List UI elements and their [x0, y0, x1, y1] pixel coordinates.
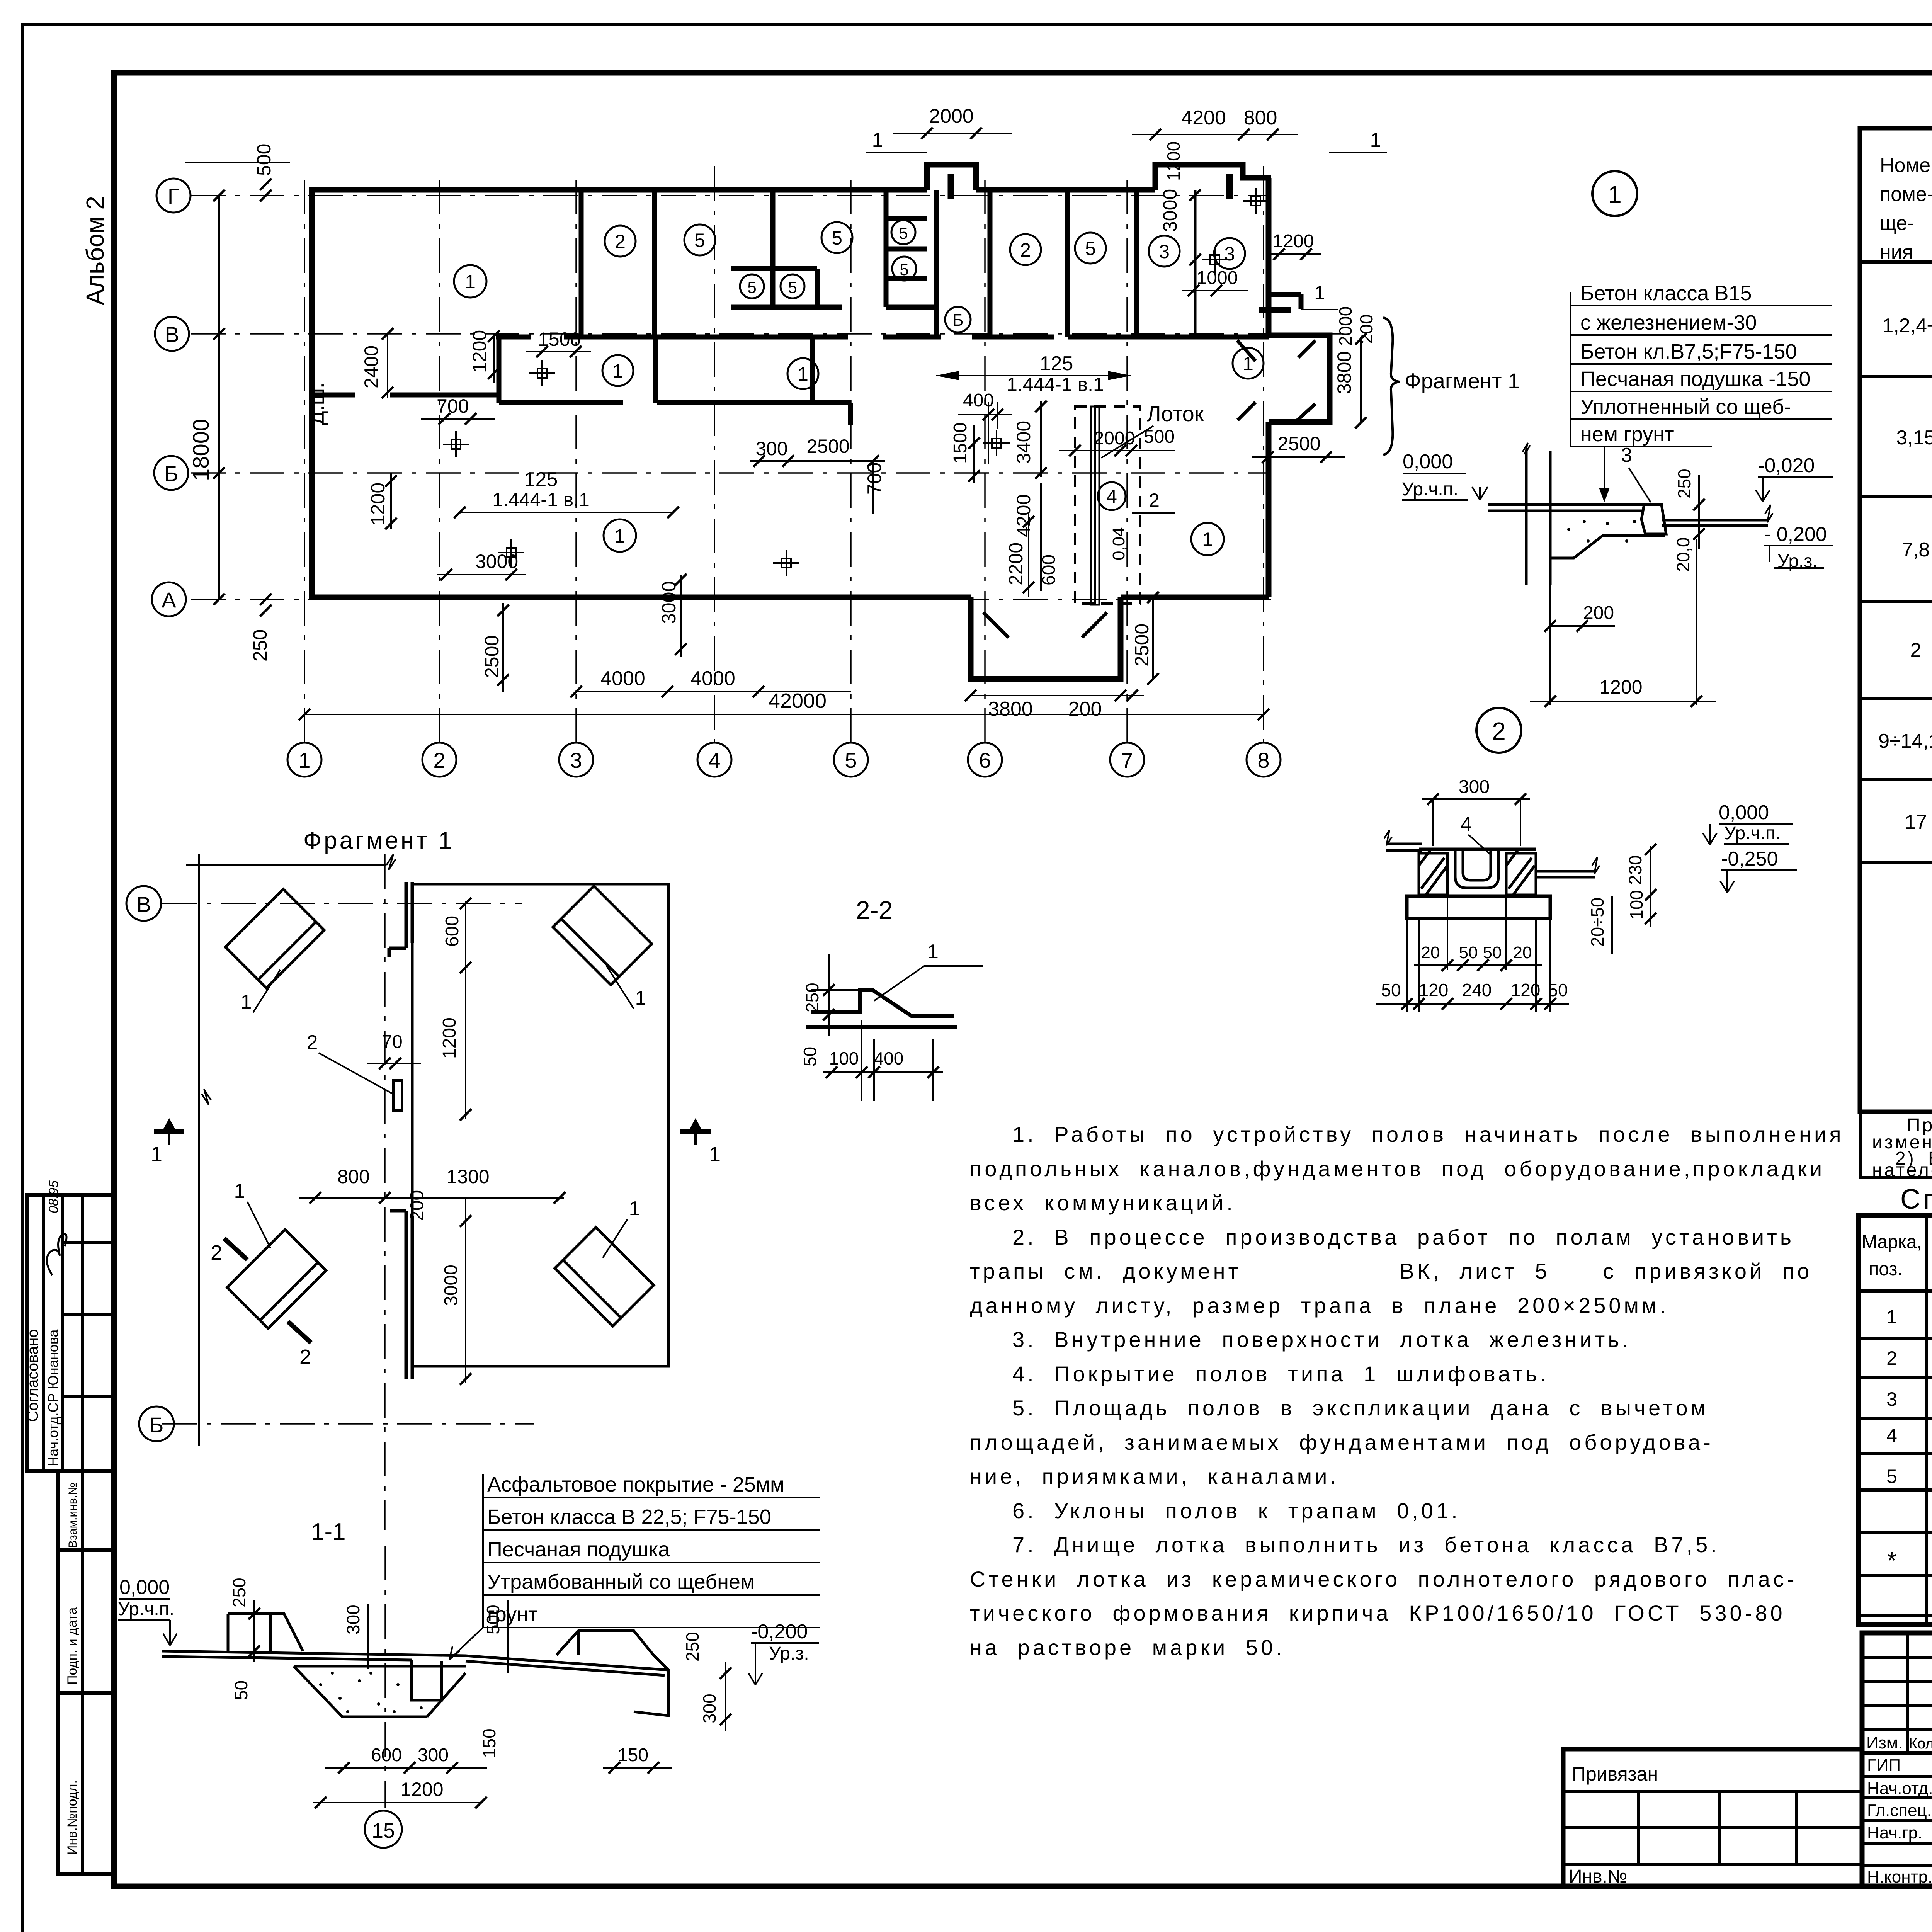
svg-text:нателе - деталь плинтуса: нателе - деталь плинтуса — [1872, 1160, 1932, 1180]
svg-text:Лоток: Лоток — [1147, 401, 1204, 426]
svg-text:300: 300 — [699, 1694, 719, 1723]
svg-text:20: 20 — [1421, 943, 1440, 962]
svg-text:Нач.отд.: Нач.отд. — [1867, 1779, 1932, 1798]
svg-text:5: 5 — [1085, 238, 1096, 259]
svg-text:700: 700 — [437, 395, 469, 417]
fragment embed item 2 — [393, 1080, 402, 1111]
svg-text:600: 600 — [442, 916, 463, 947]
svg-text:2: 2 — [1492, 717, 1506, 745]
svg-text:Бетон класса В 22,5; F75-150: Бетон класса В 22,5; F75-150 — [487, 1505, 771, 1529]
svg-text:3800: 3800 — [988, 698, 1033, 720]
dim 18000 left — [185, 162, 290, 599]
ekspl header text — [1880, 153, 1932, 264]
exterior walls — [309, 165, 1330, 679]
node 1 layers text — [1580, 282, 1810, 446]
svg-text:Уплотненный со щеб-: Уплотненный со щеб- — [1580, 395, 1791, 418]
svg-text:1: 1 — [1314, 282, 1325, 304]
dim 3800 200 dock — [971, 695, 1144, 696]
svg-text:данному листу, размер трапа: данному листу, размер трапа в плане 200×… — [970, 1293, 1669, 1318]
svg-text:2500: 2500 — [481, 635, 503, 678]
svg-text:грунт: грунт — [487, 1603, 538, 1626]
svg-text:1200: 1200 — [1599, 676, 1642, 698]
general notes — [970, 1122, 1844, 1660]
stamp signature — [47, 1234, 66, 1275]
svg-text:150: 150 — [479, 1728, 499, 1758]
section marks 2-2 fragment — [224, 1238, 311, 1343]
svg-text:Подп. и дата: Подп. и дата — [65, 1607, 80, 1685]
svg-text:Ур.ч.п.: Ур.ч.п. — [118, 1599, 174, 1619]
svg-text:Б: Б — [164, 461, 179, 486]
svg-text:0,04: 0,04 — [1109, 527, 1128, 560]
asphalt text block — [487, 1473, 784, 1626]
node 2 bubble — [1476, 708, 1521, 753]
svg-text:1500: 1500 — [538, 328, 581, 350]
ekspl row 5 — [1878, 709, 1932, 776]
svg-text:4200: 4200 — [1013, 494, 1034, 537]
svg-text:3: 3 — [1159, 241, 1170, 262]
node 15 bubble — [365, 1811, 402, 1848]
svg-text:17: 17 — [1905, 811, 1927, 833]
svg-text:Ур.ч.п.: Ур.ч.п. — [1724, 823, 1781, 844]
svg-text:2500: 2500 — [1277, 433, 1320, 454]
svg-text:2500: 2500 — [1131, 624, 1153, 667]
svg-text:3800: 3800 — [1333, 351, 1355, 394]
svg-text:1: 1 — [872, 129, 883, 151]
svg-text:2: 2 — [299, 1345, 311, 1369]
svg-text:ще-: ще- — [1880, 212, 1914, 235]
svg-text:5: 5 — [1886, 1466, 1897, 1487]
svg-text:2400: 2400 — [361, 345, 382, 388]
dock diagonals — [983, 340, 1315, 638]
section 1-1 floor — [162, 1614, 668, 1717]
svg-text:Спецификация металлических эле: Спецификация металлических элементов пол… — [1900, 1184, 1932, 1215]
svg-text:50: 50 — [231, 1680, 251, 1700]
svg-text:Бетон класса В15: Бетон класса В15 — [1580, 282, 1752, 305]
svg-text:Изм.: Изм. — [1866, 1733, 1903, 1752]
ekspl table grid — [1860, 128, 1932, 1112]
svg-text:3400: 3400 — [1013, 421, 1034, 464]
svg-text:2200: 2200 — [1005, 543, 1027, 585]
dim 42000 — [304, 714, 1264, 715]
svg-text:1: 1 — [709, 1143, 721, 1166]
svg-text:0,000: 0,000 — [1403, 451, 1453, 473]
svg-text:1200: 1200 — [1163, 141, 1184, 181]
svg-text:тического формования кирпича: тического формования кирпича КР100/1650/… — [970, 1601, 1786, 1625]
svg-text:2: 2 — [1886, 1347, 1897, 1369]
svg-text:Марка,: Марка, — [1862, 1232, 1922, 1252]
svg-text:08.95: 08.95 — [46, 1180, 61, 1213]
svg-text:Песчаная подушка: Песчаная подушка — [487, 1538, 670, 1561]
svg-text:Инв.№: Инв.№ — [1569, 1866, 1627, 1887]
grid bubbles left — [152, 179, 190, 616]
svg-text:1: 1 — [151, 1143, 162, 1166]
svg-text:1,2,4÷6: 1,2,4÷6 — [1882, 315, 1932, 337]
svg-text:Асфальтовое покрытие - 25мм: Асфальтовое покрытие - 25мм — [487, 1473, 784, 1496]
node 1 bubble — [1592, 171, 1637, 216]
svg-text:поме-: поме- — [1880, 183, 1932, 206]
svg-text:Номер: Номер — [1880, 154, 1932, 177]
svg-text:50: 50 — [1381, 980, 1401, 1000]
svg-text:7. Днище лотка выполнить из: 7. Днище лотка выполнить из бетона класс… — [1012, 1532, 1720, 1557]
svg-text:1: 1 — [1243, 353, 1253, 374]
interior walls — [312, 190, 1301, 425]
svg-text:1: 1 — [1370, 129, 1381, 151]
svg-text:3: 3 — [1886, 1388, 1897, 1410]
svg-text:150: 150 — [617, 1745, 648, 1765]
svg-text:42000: 42000 — [769, 689, 827, 713]
entry door leaf right — [1259, 307, 1291, 313]
svg-text:2. В процессе производства: 2. В процессе производства работ по пола… — [1012, 1225, 1794, 1249]
node 2 dims bottom — [1421, 943, 1532, 962]
column markers — [443, 188, 1269, 576]
svg-text:Б: Б — [952, 311, 964, 330]
svg-text:70: 70 — [382, 1032, 402, 1052]
svg-text:Фрагмент 1: Фрагмент 1 — [303, 827, 454, 854]
plan column axes — [191, 166, 1341, 742]
svg-text:1200: 1200 — [469, 330, 490, 373]
svg-text:Д.ш.: Д.ш. — [305, 383, 328, 425]
svg-text:4000: 4000 — [690, 667, 735, 690]
svg-text:1: 1 — [1202, 529, 1213, 550]
grid bubbles bottom — [287, 743, 1281, 777]
svg-text:Н.контр.: Н.контр. — [1867, 1867, 1932, 1886]
svg-text:2: 2 — [1020, 239, 1031, 261]
svg-text:трапы см. документ В: трапы см. документ ВК, лист 5 с привязко… — [970, 1259, 1812, 1283]
svg-text:1: 1 — [927, 940, 939, 963]
svg-text:3000: 3000 — [658, 581, 680, 624]
svg-text:1.444-1 в.1: 1.444-1 в.1 — [1007, 374, 1104, 395]
svg-text:250: 250 — [682, 1632, 702, 1662]
svg-text:1: 1 — [612, 360, 623, 382]
svg-text:100: 100 — [829, 1048, 859, 1068]
svg-text:Г: Г — [168, 184, 179, 208]
svg-text:240: 240 — [1462, 980, 1492, 1000]
svg-text:8: 8 — [1257, 748, 1269, 772]
svg-text:200: 200 — [407, 1190, 427, 1221]
svg-text:на растворе марки 50.: на растворе марки 50. — [970, 1635, 1285, 1660]
svg-text:5: 5 — [694, 230, 705, 251]
svg-text:ния: ния — [1880, 241, 1913, 264]
svg-text:2: 2 — [211, 1241, 222, 1264]
svg-text:250: 250 — [229, 1578, 249, 1607]
svg-text:800: 800 — [1244, 107, 1277, 129]
svg-text:площадей, занимаемых фундамен: площадей, занимаемых фундаментами под об… — [970, 1430, 1714, 1454]
svg-text:600: 600 — [371, 1745, 402, 1765]
svg-text:1200: 1200 — [400, 1779, 443, 1800]
notes box — [1861, 1112, 1932, 1180]
svg-text:Гл.спец.: Гл.спец. — [1867, 1801, 1932, 1820]
svg-text:Нач.гр.: Нач.гр. — [1867, 1823, 1922, 1842]
svg-text:2000: 2000 — [1335, 306, 1355, 346]
svg-text:15: 15 — [372, 1819, 395, 1842]
svg-text:1: 1 — [629, 1197, 640, 1220]
svg-text:1: 1 — [635, 987, 646, 1009]
svg-text:2: 2 — [1149, 490, 1160, 511]
spec table grid — [1859, 1215, 1932, 1625]
svg-text:3000: 3000 — [441, 1265, 461, 1306]
svg-text:5: 5 — [788, 278, 797, 296]
svg-text:0,000: 0,000 — [1719, 801, 1769, 824]
fragment channel upper — [389, 882, 412, 1379]
svg-text:4000: 4000 — [600, 667, 645, 690]
svg-text:50: 50 — [1548, 980, 1568, 1000]
svg-text:Согласовано: Согласовано — [24, 1329, 41, 1422]
svg-text:5: 5 — [899, 224, 908, 242]
svg-text:Взам.инв.№: Взам.инв.№ — [66, 1483, 79, 1548]
svg-text:3: 3 — [1224, 243, 1235, 265]
svg-text:с железнением-30: с железнением-30 — [1580, 311, 1757, 334]
svg-text:ние, приямками, каналами.: ние, приямками, каналами. — [970, 1464, 1339, 1488]
svg-text:125: 125 — [524, 468, 558, 491]
spec rows — [1886, 1306, 1932, 1610]
svg-text:50: 50 — [800, 1047, 820, 1066]
svg-text:50: 50 — [1483, 943, 1502, 962]
svg-text:В: В — [165, 322, 179, 347]
title block frame — [1862, 1633, 1932, 1886]
svg-text:400: 400 — [963, 390, 994, 411]
svg-text:Песчаная подушка -150: Песчаная подушка -150 — [1580, 367, 1810, 391]
lotok channel — [1091, 406, 1099, 605]
svg-text:2: 2 — [1910, 639, 1922, 662]
dim 4000 4000 — [576, 691, 851, 692]
svg-text:-0,020: -0,020 — [1758, 454, 1815, 477]
left stamp column — [27, 1195, 116, 1874]
svg-text:3,15: 3,15 — [1896, 427, 1932, 449]
svg-text:4: 4 — [1886, 1425, 1897, 1446]
fragment axes — [162, 854, 534, 1530]
node 2 drawing — [1384, 830, 1600, 918]
svg-text:5: 5 — [832, 227, 842, 249]
svg-text:0,000: 0,000 — [119, 1576, 170, 1599]
fragment plate labels — [234, 987, 646, 1220]
svg-text:Бетон кл.В7,5;F75-150: Бетон кл.В7,5;F75-150 — [1580, 340, 1797, 363]
svg-text:Стенки лотка из керамическо: Стенки лотка из керамического полнотелог… — [970, 1567, 1798, 1591]
svg-text:5. Площадь полов в эксплика: 5. Площадь полов в экспликации дана с вы… — [1012, 1396, 1709, 1420]
svg-text:18000: 18000 — [189, 419, 214, 481]
fragment plates — [225, 886, 654, 1328]
svg-text:100: 100 — [1626, 890, 1646, 920]
svg-text:300: 300 — [755, 438, 787, 459]
fragment axis bubbles — [126, 886, 174, 1441]
svg-text:20: 20 — [1513, 943, 1532, 962]
svg-text:*: * — [1887, 1548, 1896, 1574]
svg-text:всех коммуникаций.: всех коммуникаций. — [970, 1190, 1236, 1215]
svg-text:3: 3 — [1621, 444, 1632, 466]
svg-text:6: 6 — [979, 748, 991, 772]
svg-text:Ур.з.: Ур.з. — [769, 1643, 809, 1664]
svg-text:А: А — [162, 588, 176, 612]
svg-text:200: 200 — [1068, 698, 1102, 720]
svg-text:4: 4 — [1106, 486, 1117, 507]
svg-text:Нач.отд.СР Юнанова: Нач.отд.СР Юнанова — [45, 1329, 61, 1466]
svg-text:1. Работы по устройству пол: 1. Работы по устройству полов начинать п… — [1012, 1122, 1844, 1146]
svg-text:500: 500 — [253, 144, 275, 176]
svg-text:-0,250: -0,250 — [1721, 848, 1778, 870]
svg-text:Б: Б — [150, 1413, 164, 1437]
svg-text:1: 1 — [798, 363, 808, 385]
svg-text:1.444-1 в.1: 1.444-1 в.1 — [492, 489, 590, 510]
svg-text:Утрамбованный со щебнем: Утрамбованный со щебнем — [487, 1570, 755, 1594]
svg-text:2000: 2000 — [929, 105, 974, 128]
svg-text:1000: 1000 — [1197, 268, 1238, 288]
svg-text:300: 300 — [418, 1745, 449, 1765]
svg-text:7: 7 — [1121, 748, 1133, 772]
svg-text:250: 250 — [249, 629, 271, 662]
ekspl row 1 — [1882, 277, 1932, 368]
privyazan box — [1563, 1749, 1862, 1886]
svg-text:125: 125 — [1040, 352, 1073, 375]
svg-text:300: 300 — [1459, 777, 1490, 797]
svg-text:2: 2 — [615, 231, 626, 252]
ekspl row 6 — [1905, 794, 1932, 851]
svg-text:В: В — [136, 892, 151, 917]
svg-text:1-1: 1-1 — [311, 1519, 346, 1545]
section marks 1-1 fragment — [154, 1129, 711, 1134]
svg-text:2-2: 2-2 — [856, 896, 893, 924]
fragment wall lines — [186, 854, 396, 1446]
svg-text:20,0: 20,0 — [1673, 537, 1693, 572]
svg-text:2500: 2500 — [806, 435, 849, 457]
svg-text:1200: 1200 — [367, 483, 389, 526]
ekspl row 3 — [1902, 507, 1932, 600]
svg-text:ГИП: ГИП — [1867, 1756, 1901, 1775]
svg-text:1: 1 — [465, 271, 476, 293]
svg-text:Фрагмент 1: Фрагмент 1 — [1405, 369, 1520, 393]
svg-text:2000: 2000 — [1094, 428, 1135, 449]
svg-text:подпольных каналов,фундаменто: подпольных каналов,фундаментов под обору… — [970, 1156, 1825, 1181]
svg-text:250: 250 — [802, 983, 822, 1012]
svg-text:Привязан: Привязан — [1572, 1763, 1658, 1785]
svg-text:3. Внутренние поверхности ло: 3. Внутренние поверхности лотка железнит… — [1012, 1327, 1631, 1352]
svg-text:1200: 1200 — [439, 1017, 460, 1059]
svg-text:1: 1 — [1886, 1306, 1897, 1328]
fragment slab rect — [412, 884, 668, 1366]
title block texts — [1866, 1733, 1932, 1886]
svg-text:-0,200: -0,200 — [751, 1621, 808, 1643]
svg-text:4200: 4200 — [1181, 107, 1226, 129]
node 1 drawing — [1488, 443, 1773, 585]
ekspl row 2 — [1896, 409, 1932, 487]
svg-text:5: 5 — [747, 278, 756, 296]
svg-text:9÷14,16: 9÷14,16 — [1878, 730, 1932, 752]
svg-text:5: 5 — [900, 260, 908, 279]
svg-text:230: 230 — [1625, 855, 1645, 885]
svg-text:400: 400 — [874, 1048, 904, 1068]
svg-text:1: 1 — [241, 991, 252, 1013]
svg-text:1: 1 — [234, 1180, 245, 1202]
svg-text:300: 300 — [343, 1605, 363, 1634]
svg-text:1: 1 — [298, 748, 310, 772]
svg-text:1: 1 — [614, 525, 625, 547]
svg-text:Альбом 2: Альбом 2 — [81, 196, 109, 305]
svg-text:поз.: поз. — [1869, 1259, 1903, 1279]
svg-text:- 0,200: - 0,200 — [1764, 523, 1827, 546]
svg-text:1: 1 — [1608, 180, 1622, 208]
svg-text:2: 2 — [307, 1031, 318, 1054]
svg-text:250: 250 — [1674, 469, 1694, 498]
svg-text:700: 700 — [864, 463, 885, 495]
svg-text:2: 2 — [433, 748, 445, 772]
svg-text:120: 120 — [1419, 980, 1449, 1000]
svg-text:4. Покрытие полов типа 1 ш: 4. Покрытие полов типа 1 шлифовать. — [1012, 1362, 1549, 1386]
svg-text:1200: 1200 — [1273, 231, 1314, 252]
lotok pit dashed — [1075, 406, 1140, 604]
svg-text:800: 800 — [337, 1166, 369, 1187]
room labels — [454, 220, 1264, 555]
svg-text:1500: 1500 — [950, 422, 971, 464]
svg-text:6. Уклоны полов к трапам 0: 6. Уклоны полов к трапам 0,01. — [1012, 1498, 1461, 1523]
svg-text:4: 4 — [1461, 813, 1472, 835]
svg-text:Инв.№подл.: Инв.№подл. — [65, 1780, 80, 1855]
section 1-1 axis — [384, 1546, 386, 1808]
spec header — [1862, 1232, 1932, 1279]
door leaves top — [948, 174, 954, 199]
svg-text:5: 5 — [845, 748, 857, 772]
svg-text:1300: 1300 — [446, 1166, 489, 1187]
svg-text:4: 4 — [708, 748, 720, 772]
svg-text:Кол.уч: Кол.уч — [1909, 1736, 1932, 1752]
svg-text:20÷50: 20÷50 — [1587, 897, 1607, 947]
ekspl row 4 — [1910, 624, 1932, 681]
svg-text:Ур.ч.п.: Ур.ч.п. — [1402, 479, 1458, 500]
svg-text:3: 3 — [570, 748, 582, 772]
section 1-1 concrete dots — [319, 1672, 423, 1713]
svg-text:нем грунт: нем грунт — [1580, 423, 1674, 446]
svg-text:7,8: 7,8 — [1902, 539, 1930, 561]
svg-text:3000: 3000 — [1159, 189, 1181, 232]
svg-text:3000: 3000 — [475, 551, 518, 572]
